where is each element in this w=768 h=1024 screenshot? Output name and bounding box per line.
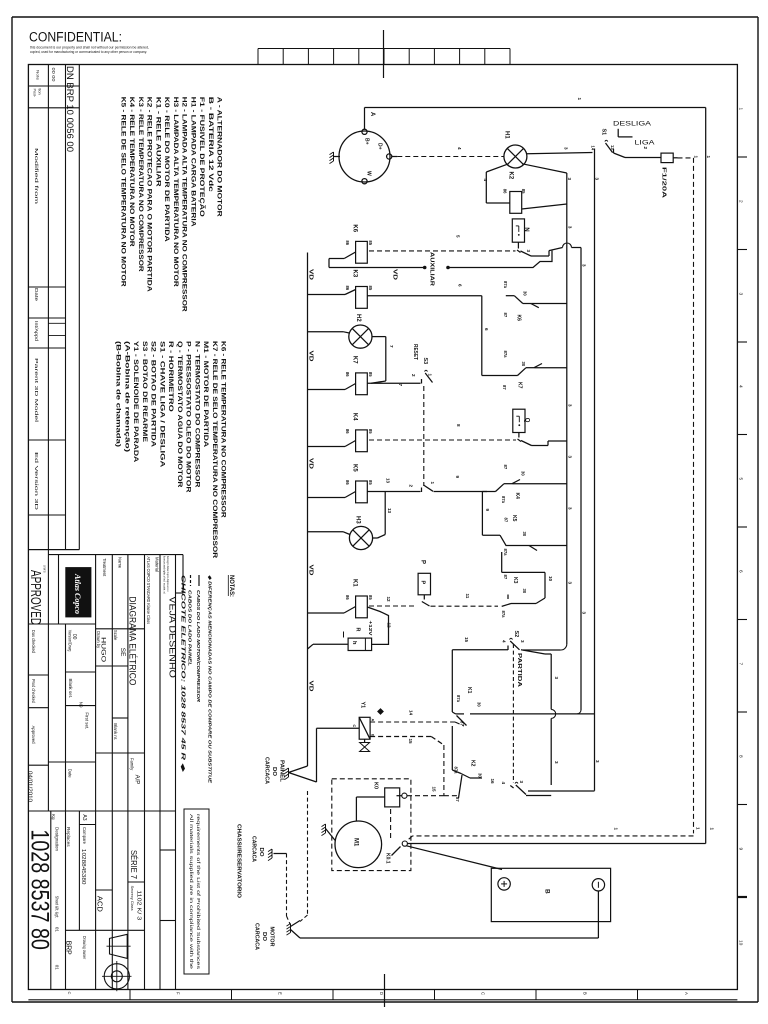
svg-text:B - BATERIA 12 Vdc: B - BATERIA 12 Vdc bbox=[207, 97, 214, 192]
svg-text:Drawing owner: Drawing owner bbox=[82, 936, 87, 959]
svg-text:87: 87 bbox=[455, 797, 460, 802]
svg-text:6: 6 bbox=[738, 570, 744, 573]
svg-text:H1 - LAMPADA CARGA BATERIA: H1 - LAMPADA CARGA BATERIA bbox=[189, 97, 196, 227]
svg-text:this document is our property: this document is our property and shall … bbox=[30, 45, 149, 49]
svg-text:3: 3 bbox=[568, 456, 573, 459]
svg-text:C: C bbox=[481, 992, 486, 995]
svg-text:12: 12 bbox=[386, 597, 391, 603]
svg-text:P - PRESSOSTATO OLEO DO MOTOR: P - PRESSOSTATO OLEO DO MOTOR bbox=[185, 341, 192, 493]
svg-text:Parent 3D Model: Parent 3D Model bbox=[34, 358, 39, 422]
svg-text:(A-Bobina de retenção): (A-Bobina de retenção) bbox=[123, 341, 130, 452]
svg-text:M1 - MOTOR DE PARTIDA: M1 - MOTOR DE PARTIDA bbox=[202, 341, 209, 447]
svg-text:1: 1 bbox=[693, 156, 698, 159]
svg-text:VD: VD bbox=[392, 269, 398, 280]
svg-text:1: 1 bbox=[430, 482, 435, 485]
svg-text:3: 3 bbox=[526, 250, 531, 253]
svg-text:VD: VD bbox=[307, 681, 313, 692]
svg-text:DIAGRAMA ELÉTRICO: DIAGRAMA ELÉTRICO bbox=[127, 596, 137, 685]
svg-text:8: 8 bbox=[456, 424, 461, 427]
svg-text:3: 3 bbox=[568, 507, 573, 510]
svg-text:R: R bbox=[355, 628, 361, 632]
svg-text:VD: VD bbox=[307, 458, 313, 469]
svg-text:Secrecy Class: Secrecy Class bbox=[130, 886, 134, 911]
svg-text:86: 86 bbox=[345, 595, 350, 600]
svg-text:RESET: RESET bbox=[412, 344, 418, 361]
svg-text:W: W bbox=[366, 171, 372, 176]
svg-text:16: 16 bbox=[490, 779, 495, 785]
svg-text:87a: 87a bbox=[503, 549, 508, 557]
svg-text:◆ DIFERENÇAS MENCIONADAS NO CA: ◆ DIFERENÇAS MENCIONADAS NO CAMPO DE COM… bbox=[208, 575, 213, 784]
svg-text:Ed Version 3D: Ed Version 3D bbox=[34, 452, 39, 510]
svg-text:Material: Material bbox=[154, 557, 159, 572]
svg-text:K1: K1 bbox=[351, 579, 357, 587]
svg-text:NOTAS:: NOTAS: bbox=[228, 575, 235, 597]
svg-text:K4: K4 bbox=[514, 493, 520, 500]
svg-text:S2 - BOTAO DE PARTIDA: S2 - BOTAO DE PARTIDA bbox=[150, 341, 157, 447]
svg-text:8: 8 bbox=[738, 755, 744, 758]
svg-text:N: N bbox=[523, 227, 529, 231]
svg-text:Treatment: Treatment bbox=[102, 558, 107, 577]
svg-text:CARCACA: CARCACA bbox=[264, 757, 270, 784]
svg-text:86: 86 bbox=[345, 240, 350, 245]
svg-text:3: 3 bbox=[554, 761, 559, 764]
svg-text:3: 3 bbox=[568, 582, 573, 585]
svg-text:1: 1 bbox=[706, 156, 711, 159]
svg-text:15: 15 bbox=[464, 637, 469, 643]
svg-text:K4 - RELE TEMPERATURA NO MOTOR: K4 - RELE TEMPERATURA NO MOTOR bbox=[128, 97, 135, 247]
svg-text:requirements of the List of Pr: requirements of the List of Prohibited S… bbox=[196, 814, 201, 969]
svg-text:A: A bbox=[370, 719, 374, 722]
svg-text:copied, used for manufacturing: copied, used for manufacturing or commun… bbox=[30, 50, 147, 54]
svg-text:87a: 87a bbox=[503, 281, 508, 289]
svg-text:85: 85 bbox=[368, 595, 373, 600]
svg-text:Y1 - SOLENOIDE DE PARADA: Y1 - SOLENOIDE DE PARADA bbox=[132, 341, 139, 462]
svg-text:S3: S3 bbox=[422, 358, 428, 365]
svg-text:Modified from: Modified from bbox=[34, 148, 39, 205]
svg-text:3: 3 bbox=[568, 404, 573, 407]
svg-text:87: 87 bbox=[503, 518, 508, 523]
svg-text:86: 86 bbox=[345, 429, 350, 434]
svg-text:Kg: Kg bbox=[51, 814, 56, 820]
svg-text:K6: K6 bbox=[351, 224, 357, 232]
svg-text:15: 15 bbox=[432, 787, 437, 793]
svg-text:3: 3 bbox=[564, 147, 569, 150]
svg-text:85: 85 bbox=[368, 480, 373, 485]
svg-text:P: P bbox=[419, 581, 425, 585]
svg-text:86: 86 bbox=[502, 189, 507, 194]
svg-text:C: C bbox=[352, 725, 356, 728]
svg-text:K4: K4 bbox=[351, 413, 357, 421]
svg-text:1102 K/ 3: 1102 K/ 3 bbox=[136, 890, 142, 920]
svg-text:3: 3 bbox=[595, 760, 600, 763]
svg-text:Date: Date bbox=[68, 769, 73, 779]
svg-text:LIGA: LIGA bbox=[635, 140, 656, 147]
svg-text:9: 9 bbox=[738, 848, 744, 851]
svg-text:00 00: 00 00 bbox=[51, 68, 56, 83]
svg-text:Name: Name bbox=[117, 557, 122, 569]
svg-text:30: 30 bbox=[522, 589, 527, 594]
svg-text:CABOS DO LADO MOTOR/COMPRESSOR: CABOS DO LADO MOTOR/COMPRESSOR bbox=[196, 590, 201, 703]
svg-text:Approved: Approved bbox=[31, 726, 36, 745]
svg-text:3: 3 bbox=[582, 264, 587, 267]
svg-text:HUGO: HUGO bbox=[100, 637, 106, 662]
svg-text:CONFIDENTIAL:: CONFIDENTIAL: bbox=[29, 30, 122, 45]
svg-text:86: 86 bbox=[345, 286, 350, 291]
svg-text:APPROVED: APPROVED bbox=[27, 570, 44, 625]
svg-text:87a: 87a bbox=[503, 351, 508, 359]
svg-text:K2 - RELE PROTECAO PARA O MOTO: K2 - RELE PROTECAO PARA O MOTOR PARTIDA bbox=[146, 97, 153, 292]
svg-text:A: A bbox=[684, 992, 689, 995]
svg-text:H1: H1 bbox=[504, 131, 510, 139]
svg-text:K5 - RELE DE SELO TEMPERATURA: K5 - RELE DE SELO TEMPERATURA NO MOTOR bbox=[119, 97, 126, 287]
svg-text:VD: VD bbox=[307, 269, 313, 280]
svg-text:Compare: Compare bbox=[82, 827, 87, 845]
svg-text:01: 01 bbox=[55, 927, 60, 933]
svg-text:K3: K3 bbox=[512, 577, 518, 584]
svg-text:B: B bbox=[582, 992, 587, 995]
svg-text:MOTOR: MOTOR bbox=[269, 927, 275, 947]
svg-text:4: 4 bbox=[501, 782, 506, 785]
svg-text:K7 - RELE DE SELO TEMPERATURA: K7 - RELE DE SELO TEMPERATURA NO COMPRES… bbox=[211, 341, 218, 558]
svg-text:N - TERMOSTATO DO COMPRESSOR: N - TERMOSTATO DO COMPRESSOR bbox=[193, 341, 200, 488]
svg-text:F1 - FUSIVEL DE PROTEÇÃO: F1 - FUSIVEL DE PROTEÇÃO bbox=[198, 97, 207, 217]
svg-text:Atlas Copco: Atlas Copco bbox=[73, 573, 83, 614]
svg-text:B: B bbox=[543, 889, 550, 894]
svg-text:ACD: ACD bbox=[96, 896, 105, 913]
svg-text:Designation: Designation bbox=[55, 827, 60, 852]
svg-text:3: 3 bbox=[519, 781, 524, 784]
svg-text:Blank set.: Blank set. bbox=[68, 679, 73, 699]
svg-text:belong to Atlas Copco Airpower: belong to Atlas Copco Airpower n.v. bbox=[166, 556, 170, 592]
svg-text:2: 2 bbox=[643, 147, 648, 150]
svg-text:CARCACA: CARCACA bbox=[254, 923, 260, 950]
svg-text:30: 30 bbox=[521, 362, 526, 367]
svg-text:licences and rights of ind. es: licences and rights of ind. escalat. al. bbox=[163, 556, 167, 594]
svg-text:85: 85 bbox=[368, 286, 373, 291]
svg-text:Blank nr.: Blank nr. bbox=[113, 723, 118, 740]
svg-text:7: 7 bbox=[398, 384, 403, 387]
svg-text:H2 - LAMPADA ALTA TEMPERATURA: H2 - LAMPADA ALTA TEMPERATURA NO COMPRES… bbox=[181, 97, 188, 312]
svg-text:DESLIGA: DESLIGA bbox=[613, 121, 652, 128]
svg-text:K1 - RELE AUXILIAR: K1 - RELE AUXILIAR bbox=[154, 97, 161, 187]
svg-text:85: 85 bbox=[368, 240, 373, 245]
svg-text:87: 87 bbox=[503, 313, 508, 318]
svg-text:S3 - BOTAO DE REARME: S3 - BOTAO DE REARME bbox=[141, 341, 148, 443]
svg-text:2: 2 bbox=[738, 200, 744, 203]
svg-text:4: 4 bbox=[738, 385, 744, 388]
svg-text:00: 00 bbox=[71, 634, 77, 640]
svg-text:K3: K3 bbox=[351, 270, 357, 278]
svg-text:CHICOTE ELETRICO: 1028 8537 45: CHICOTE ELETRICO: 1028 8537 45 R ◆ bbox=[180, 575, 186, 773]
svg-text:10: 10 bbox=[548, 576, 553, 582]
svg-text:9: 9 bbox=[485, 509, 490, 512]
svg-text:D+: D+ bbox=[377, 143, 383, 150]
svg-text:3: 3 bbox=[738, 293, 744, 296]
svg-text:S1 - CHAVE LIGA / DESLIGA: S1 - CHAVE LIGA / DESLIGA bbox=[158, 341, 165, 467]
svg-text:C: C bbox=[67, 992, 72, 995]
svg-text:K5: K5 bbox=[511, 515, 517, 522]
svg-text:15: 15 bbox=[408, 739, 413, 745]
svg-text:A/P: A/P bbox=[134, 775, 140, 785]
svg-text:3: 3 bbox=[567, 178, 572, 181]
svg-text:AUXILIAR: AUXILIAR bbox=[428, 252, 434, 286]
svg-text:85: 85 bbox=[368, 372, 373, 377]
svg-text:S'M'S: S'M'S bbox=[43, 565, 47, 573]
svg-text:PARTIDA: PARTIDA bbox=[516, 653, 522, 687]
svg-text:04/01/2010: 04/01/2010 bbox=[27, 771, 33, 802]
svg-text:Family: Family bbox=[129, 758, 134, 771]
svg-text:3: 3 bbox=[568, 226, 573, 229]
svg-text:5: 5 bbox=[738, 478, 744, 481]
svg-text:87a: 87a bbox=[501, 496, 506, 504]
svg-text:Y1: Y1 bbox=[359, 702, 365, 709]
svg-text:1028845380: 1028845380 bbox=[80, 849, 86, 885]
svg-text:3: 3 bbox=[520, 640, 525, 643]
svg-text:Posi-: Posi- bbox=[33, 89, 37, 98]
svg-text:6: 6 bbox=[484, 328, 489, 331]
svg-text:All materials supplied are in: All materials supplied are in compliance… bbox=[189, 814, 194, 970]
svg-text:Int/Appd: Int/Appd bbox=[34, 321, 39, 342]
svg-text:85: 85 bbox=[521, 189, 526, 194]
svg-text:1: 1 bbox=[709, 828, 714, 831]
svg-text:SÉRIE 7: SÉRIE 7 bbox=[129, 850, 139, 879]
svg-text:2: 2 bbox=[408, 485, 413, 488]
svg-text:E: E bbox=[277, 992, 282, 995]
svg-text:H3 - LAMPADA ALTA TEMPERATURA: H3 - LAMPADA ALTA TEMPERATURA NO MOTOR bbox=[172, 97, 179, 287]
svg-text:M1: M1 bbox=[352, 838, 358, 847]
svg-text:K1: K1 bbox=[466, 687, 472, 694]
svg-text:(B-Bobina de chamada): (B-Bobina de chamada) bbox=[115, 341, 122, 447]
svg-text:DO: DO bbox=[261, 932, 267, 941]
svg-text:7: 7 bbox=[738, 663, 744, 666]
svg-text:K0: K0 bbox=[373, 782, 379, 789]
svg-text:01: 01 bbox=[55, 965, 60, 971]
svg-text:Date: Date bbox=[34, 288, 39, 302]
svg-text:F1/20A: F1/20A bbox=[661, 167, 667, 198]
svg-text:DN BRP 10 0056 00: DN BRP 10 0056 00 bbox=[65, 66, 75, 152]
svg-text:K0 - RELE DO MOTOR DE PARTIDA: K0 - RELE DO MOTOR DE PARTIDA bbox=[163, 97, 170, 242]
svg-text:tion: tion bbox=[38, 89, 42, 95]
svg-text:Q: Q bbox=[523, 418, 529, 423]
svg-text:DO: DO bbox=[271, 767, 277, 776]
svg-text:13: 13 bbox=[387, 508, 392, 514]
svg-text:K5: K5 bbox=[351, 464, 357, 472]
svg-text:K2: K2 bbox=[469, 760, 475, 767]
svg-text:BRP: BRP bbox=[64, 941, 71, 955]
svg-text:87: 87 bbox=[503, 575, 508, 580]
svg-text:87: 87 bbox=[502, 385, 507, 390]
svg-text:Note: Note bbox=[36, 70, 41, 81]
svg-text:A: A bbox=[369, 112, 375, 117]
svg-text:12: 12 bbox=[386, 623, 391, 629]
svg-text:10: 10 bbox=[738, 940, 744, 946]
svg-text:4: 4 bbox=[457, 147, 462, 150]
svg-text:11: 11 bbox=[465, 594, 470, 599]
svg-text:30: 30 bbox=[522, 291, 527, 296]
svg-text:K2: K2 bbox=[507, 172, 513, 180]
svg-text:K6: K6 bbox=[516, 315, 522, 322]
svg-text:A - ALTERNADOR DO MOTOR: A - ALTERNADOR DO MOTOR bbox=[216, 97, 223, 217]
svg-text:Prod checked: Prod checked bbox=[31, 679, 36, 704]
svg-text:30: 30 bbox=[477, 702, 482, 707]
svg-text:VD: VD bbox=[307, 351, 313, 362]
svg-text:86: 86 bbox=[345, 480, 350, 485]
svg-text:Replaces: Replaces bbox=[66, 827, 71, 847]
svg-text:H3: H3 bbox=[355, 516, 361, 524]
svg-text:3: 3 bbox=[582, 612, 587, 615]
svg-text:86: 86 bbox=[345, 372, 350, 377]
svg-text:6: 6 bbox=[458, 284, 463, 287]
svg-text:1: 1 bbox=[577, 98, 582, 101]
svg-text:30: 30 bbox=[521, 471, 526, 476]
svg-text:13: 13 bbox=[386, 478, 391, 484]
svg-text:87a: 87a bbox=[501, 611, 506, 619]
svg-text:5: 5 bbox=[456, 235, 461, 238]
svg-text:9: 9 bbox=[455, 476, 460, 479]
svg-text:K0.1: K0.1 bbox=[384, 853, 390, 864]
svg-text:SE: SE bbox=[119, 648, 126, 657]
svg-text:87a: 87a bbox=[456, 695, 461, 703]
svg-text:3: 3 bbox=[594, 178, 599, 181]
svg-text:S2: S2 bbox=[513, 631, 519, 638]
svg-text:K3 - RELE TEMPERATURA NO COMPR: K3 - RELE TEMPERATURA NO COMPRESSOR bbox=[137, 97, 144, 272]
svg-text:CHASSI/RESERVATORIO: CHASSI/RESERVATORIO bbox=[236, 824, 242, 898]
svg-text:85: 85 bbox=[368, 429, 373, 434]
svg-text:+12V: +12V bbox=[368, 621, 373, 637]
svg-text:N9: N9 bbox=[79, 702, 84, 708]
svg-text:ATLAS COPCO STANDARD Klasse Cl: ATLAS COPCO STANDARD Klasse Class bbox=[146, 557, 151, 625]
svg-text:P: P bbox=[420, 560, 426, 564]
svg-text:K7: K7 bbox=[351, 356, 357, 364]
svg-text:PAINEL: PAINEL bbox=[279, 760, 285, 783]
svg-text:1: 1 bbox=[614, 828, 619, 831]
svg-text:1028 8537 80: 1028 8537 80 bbox=[25, 829, 53, 950]
svg-text:3: 3 bbox=[554, 677, 559, 680]
svg-text:B+: B+ bbox=[364, 138, 370, 145]
svg-text:h: h bbox=[351, 641, 357, 645]
svg-text:A3: A3 bbox=[81, 814, 87, 820]
svg-text:First set.: First set. bbox=[85, 712, 90, 729]
svg-text:F: F bbox=[176, 992, 181, 995]
svg-text:Scale: Scale bbox=[113, 630, 118, 641]
svg-text:13: 13 bbox=[610, 145, 615, 150]
svg-text:Das checked: Das checked bbox=[31, 630, 36, 654]
svg-text:87: 87 bbox=[503, 465, 508, 470]
svg-text:1: 1 bbox=[738, 108, 744, 111]
svg-text:S1: S1 bbox=[601, 129, 607, 136]
svg-text:K6 - RELE TEMPERATURA NO COMPR: K6 - RELE TEMPERATURA NO COMPRESSOR bbox=[220, 341, 227, 518]
svg-text:H2: H2 bbox=[355, 314, 361, 322]
svg-text:4: 4 bbox=[483, 179, 488, 182]
svg-text:Sheet &lt; &gt;: Sheet &lt; &gt; bbox=[55, 896, 60, 918]
svg-text:4: 4 bbox=[502, 640, 507, 643]
svg-text:R - HORIMETRO: R - HORIMETRO bbox=[167, 341, 174, 412]
svg-text:VD: VD bbox=[307, 565, 313, 576]
svg-text:CABOS DO LADO PAINEL: CABOS DO LADO PAINEL bbox=[188, 590, 193, 666]
svg-text:14: 14 bbox=[591, 146, 596, 151]
svg-text:VEJA DESENHO: VEJA DESENHO bbox=[167, 596, 177, 678]
svg-text:30: 30 bbox=[522, 532, 527, 537]
svg-text:CARCACA: CARCACA bbox=[250, 836, 256, 862]
svg-text:7: 7 bbox=[389, 345, 394, 348]
svg-text:1: 1 bbox=[428, 374, 433, 377]
svg-text:DO: DO bbox=[258, 848, 264, 857]
svg-text:2: 2 bbox=[411, 374, 416, 377]
svg-text:14: 14 bbox=[409, 710, 414, 716]
svg-text:1: 1 bbox=[696, 827, 701, 830]
svg-text:D: D bbox=[379, 992, 384, 995]
svg-text:Q - TERMOSTATO AGUA DO MOTOR: Q - TERMOSTATO AGUA DO MOTOR bbox=[176, 341, 183, 488]
svg-text:K7: K7 bbox=[516, 382, 522, 389]
